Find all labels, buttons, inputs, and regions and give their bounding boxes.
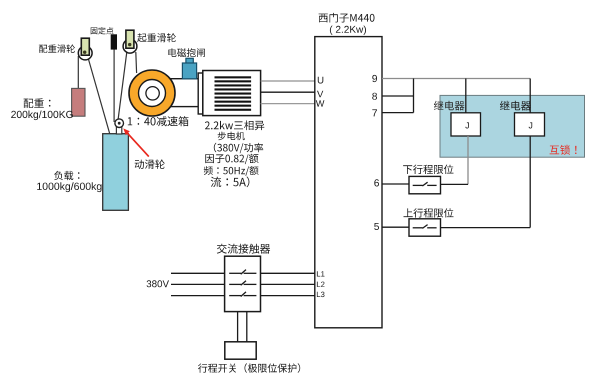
label 继电器 (relay) left: [434, 101, 465, 111]
wire vertical joining 9-8-7: [413, 79, 415, 113]
winch drum of 1:40 reducer: [129, 70, 175, 116]
motor label line2 步电机: [218, 132, 245, 141]
wire U: motor to inverter: [261, 80, 315, 82]
relay J1 letter J: [465, 122, 469, 128]
pin label 8: [372, 93, 377, 100]
pin label L1: [317, 271, 325, 276]
motor label line3 （380V/功率: [214, 143, 263, 154]
label 负载：: [54, 171, 79, 180]
pin label 6: [374, 179, 379, 186]
pulley: counterweight pulley (配重滑轮): [78, 38, 92, 60]
wire contactor to travel switch (right): [246, 312, 248, 342]
relay J1 box: [451, 113, 481, 136]
electromagnetic brake (电磁抱闸) actuator: [182, 58, 196, 79]
load block (负载): [103, 134, 129, 211]
wire down-limit switch to J1 drop: [441, 183, 469, 185]
mains line L2 from 380V: [171, 283, 315, 285]
label 配重滑轮 (counterweight pulley): [39, 44, 75, 53]
pin label L3: [317, 292, 325, 298]
motor label line6 流：5A）: [211, 177, 250, 188]
wire rope: fixed point to moving pulley: [113, 48, 115, 122]
travel switch box (行程开关): [225, 342, 256, 359]
up limit switch contact symbol: [413, 225, 437, 229]
wire terminal 5 to up-limit switch: [382, 226, 409, 228]
wire stub terminal 8: [382, 95, 414, 97]
counterweight block (配重): [72, 88, 85, 116]
label 上行程限位 (up travel limit): [404, 208, 454, 217]
motor body (2.2kw three-phase asynchronous motor): [203, 71, 261, 116]
down limit switch box: [409, 176, 441, 193]
wire rope: counterweight pulley to load top (diagonal): [88, 57, 110, 135]
label 行程开关（极限位保护）: [198, 363, 300, 373]
moving pulley (动滑轮) on load: [115, 119, 124, 134]
wire from terminal 9 (gray): [382, 78, 530, 80]
motor label line5 频：50Hz/额: [204, 166, 259, 176]
label 互锁！ (interlock!) red: [550, 145, 577, 155]
label 200kg/100KG: [11, 111, 73, 121]
label 动滑轮 (moving pulley): [135, 159, 165, 169]
motor label line4 因子0.82/额: [205, 154, 258, 164]
pin label 9: [372, 75, 377, 82]
pin label W: [316, 100, 325, 106]
label 配重：: [24, 98, 51, 108]
up limit switch box: [409, 219, 441, 236]
pin label V: [317, 91, 323, 98]
relay J2 letter J: [529, 122, 533, 128]
label ( 2.2Kw): [330, 26, 366, 35]
label 交流接触器 (AC contactor): [217, 244, 270, 254]
wire stub terminal 7: [382, 112, 414, 114]
wire terminal 6 to down-limit switch: [382, 183, 409, 185]
wire up-limit switch to J2 drop: [441, 227, 531, 229]
AC contactor box (交流接触器): [225, 256, 261, 311]
label 电磁抱闸 (electromagnetic brake): [168, 48, 205, 57]
contactor contact symbols (3 poles): [229, 270, 256, 297]
mains line L3 from 380V: [171, 295, 315, 297]
label 380V: [147, 280, 169, 287]
fixed point block (固定点): [111, 35, 116, 49]
wire drop to relay J2 coil: [529, 79, 531, 114]
wire rope: lifting pulley to moving pulley: [118, 52, 127, 121]
shaft housing between reducer and motor: [152, 79, 199, 107]
label 西门子M440 (Siemens M440): [319, 13, 375, 23]
mains line L1 from 380V: [171, 272, 315, 274]
wire relay J2 to up-limit switch: [529, 136, 531, 228]
wire rope: lifting pulley to winch drum: [135, 52, 138, 73]
pin label L2: [317, 282, 325, 287]
wire V: motor to inverter: [261, 91, 315, 93]
wire rope: counterweight pulley to counterweight: [77, 56, 79, 89]
pulley: lifting pulley (起重滑轮): [123, 30, 137, 53]
motor cooling fins: [215, 76, 252, 110]
relay J2 box: [515, 113, 545, 136]
wire relay J1 to down-limit switch (gray): [467, 136, 469, 184]
wire W: motor to inverter: [261, 103, 315, 105]
motor label line1 2.2kw三相异: [205, 120, 264, 130]
down limit switch contact symbol: [413, 182, 437, 186]
wire contactor to travel switch (left): [237, 312, 239, 342]
pin label U: [318, 77, 324, 84]
label 起重滑轮 (lifting pulley): [137, 33, 176, 42]
label 固定点 (fixed point): [91, 27, 114, 34]
label 1000kg/600kg: [37, 182, 101, 192]
red arrow pointing at moving pulley: [123, 128, 149, 156]
label 1：40减速箱 (1:40 reducer): [128, 116, 189, 126]
wire drop to relay J1 coil: [465, 79, 467, 114]
pin label 5: [374, 223, 379, 230]
inverter box 西门子M440: [315, 37, 382, 328]
pin label 7: [372, 109, 377, 116]
relay interlock area (light blue): [440, 95, 585, 157]
label 继电器 (relay) right: [500, 101, 531, 111]
label 下行程限位 (down travel limit): [403, 165, 453, 174]
motor flange: [198, 73, 203, 114]
